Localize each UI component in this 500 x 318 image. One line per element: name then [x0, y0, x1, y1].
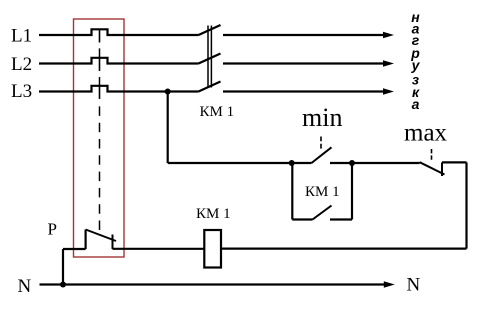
breaker tick L1	[99, 29, 101, 42]
wire L1 to load	[223, 34, 384, 36]
contactor KM1 main contact pole 2	[199, 54, 221, 64]
aux branch bottom right wire	[330, 218, 352, 220]
wire L1 with breaker bump	[39, 29, 199, 35]
svg-text:P: P	[48, 220, 57, 239]
thermal contact P: blade	[86, 230, 116, 242]
KM1 aux contact blade (NO)	[313, 206, 332, 220]
svg-text:max: max	[404, 120, 448, 147]
max contact blade (NC)	[420, 162, 445, 174]
svg-text:N: N	[407, 275, 421, 296]
contactor KM1 main contact pole 1	[199, 25, 221, 35]
svg-text:L1: L1	[11, 25, 32, 46]
wire L2 with breaker bump	[39, 58, 199, 64]
svg-text:КМ 1: КМ 1	[196, 206, 231, 222]
contactor coil KM1	[204, 230, 221, 268]
svg-text:min: min	[302, 103, 342, 132]
node left of min	[289, 160, 295, 166]
svg-text:а: а	[412, 96, 420, 112]
N wire	[40, 283, 385, 285]
svg-text:L3: L3	[11, 81, 32, 102]
contactor KM1 linkage bars	[208, 26, 211, 88]
breaker mechanical linkage (dashed)	[99, 48, 101, 57]
breaker QF enclosure (red box)	[74, 19, 125, 257]
min actuator dashes	[320, 137, 322, 149]
wire from L3 down to control line	[167, 92, 169, 164]
wire P contact to coil	[113, 248, 205, 250]
breaker tick L3	[99, 86, 101, 99]
wire left of P contact	[63, 248, 86, 250]
wire L3 with breaker bump	[39, 86, 199, 92]
aux branch bottom left wire	[292, 218, 312, 220]
svg-text:КМ 1: КМ 1	[305, 184, 340, 200]
max actuator dashes	[431, 149, 433, 160]
thermal contact P: left post	[84, 230, 86, 250]
KM1 aux contact branch: left drop	[291, 163, 293, 220]
control wire min to max	[330, 162, 420, 164]
thermal contact P: stop bar	[112, 235, 114, 250]
arrowhead L2	[383, 60, 394, 67]
svg-text:N: N	[18, 276, 32, 297]
aux branch right rise	[351, 163, 353, 220]
breaker tick L2	[99, 58, 101, 71]
node on L3	[165, 89, 171, 95]
svg-text:КМ 1: КМ 1	[200, 104, 235, 120]
label load (нагрузка, vertical)	[410, 9, 420, 112]
contactor KM1 main contact pole 3	[199, 82, 221, 92]
arrowhead L3	[383, 88, 394, 95]
node on N line	[60, 282, 66, 288]
max contact stop bar	[441, 162, 443, 176]
min contact blade (NO)	[312, 147, 332, 163]
node right of min	[349, 160, 355, 166]
wire max to right corner	[442, 161, 467, 163]
svg-text:L2: L2	[11, 54, 32, 75]
control wire to min contact	[168, 162, 312, 164]
wire down to N	[62, 249, 64, 285]
wire L3 to load	[223, 90, 384, 92]
wire L2 to load	[223, 62, 384, 64]
arrowhead L1	[383, 32, 394, 39]
wire coil to right vertical	[221, 248, 467, 250]
arrowhead N	[384, 281, 395, 288]
right side vertical wire	[465, 162, 467, 248]
